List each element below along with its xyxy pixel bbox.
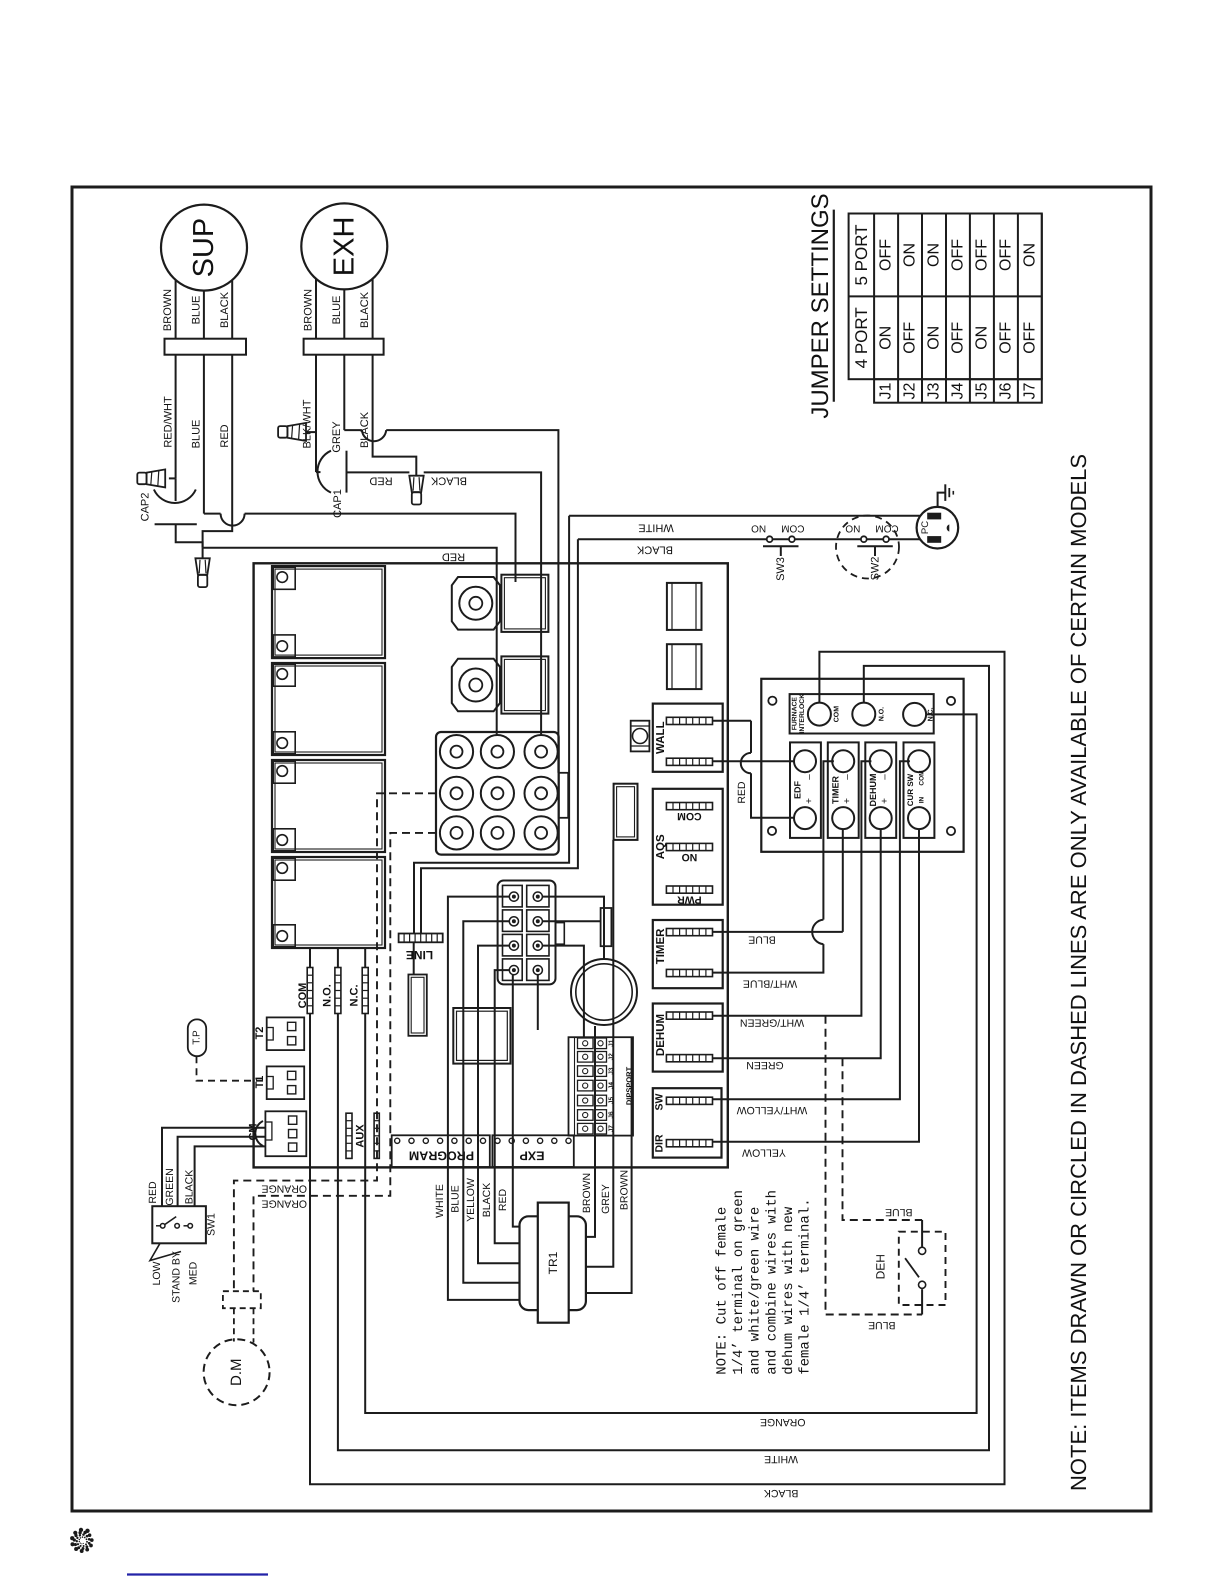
component C1 (vertical) [614, 784, 638, 840]
svg-text:NOTE: ITEMS DRAWN OR CIRCL: NOTE: ITEMS DRAWN OR CIRCLED IN DASHED L… [1066, 454, 1091, 1491]
svg-text:ORANGE: ORANGE [760, 1416, 806, 1428]
svg-text:and white/green wire: and white/green wire [748, 1207, 764, 1375]
terminal block FURNACE INTERLOCK [790, 694, 935, 734]
wire WHITE (line neutral) [414, 516, 920, 934]
connector T1 [254, 1066, 304, 1099]
wire CN1 pin8 [537, 975, 539, 1030]
wire RED (to terminal grid) [203, 548, 497, 736]
jumper settings table [849, 214, 1042, 403]
terminal panel [761, 679, 963, 852]
component R1 (vertical) [408, 975, 426, 1036]
wire BLUE (SUP fan lead) [191, 291, 204, 339]
svg-text:RED: RED [369, 475, 392, 487]
wire BLUE (TIMER+) [713, 829, 843, 945]
ground symbol [938, 484, 954, 507]
wire LINE to fuse [413, 942, 415, 974]
svg-text:N.C.: N.C. [349, 985, 361, 1007]
svg-text:EDF: EDF [793, 780, 803, 799]
svg-text:D.M: D.M [228, 1358, 245, 1386]
svg-text:BLACK: BLACK [184, 1170, 196, 1204]
wire GREEN (CM to SW1) [164, 1137, 265, 1207]
wire WHT/YELLOW (CUR SW COM) [713, 761, 910, 1116]
svg-text:GREY: GREY [331, 421, 343, 453]
svg-text:and combine wires with: and combine wires with [764, 1190, 780, 1375]
header EXP [492, 1135, 573, 1167]
svg-text:BLACK: BLACK [359, 291, 371, 328]
PCB board outline [254, 563, 728, 1167]
svg-text:ON: ON [973, 326, 990, 350]
svg-text:GREY: GREY [600, 1184, 612, 1214]
svg-text:N.O.: N.O. [322, 984, 334, 1007]
wire BLUE (dashed to DEH) [843, 1058, 923, 1246]
svg-text:COM: COM [677, 810, 702, 822]
svg-text:BLUE: BLUE [331, 296, 343, 325]
svg-text:EXH: EXH [328, 217, 360, 277]
component R2 (vertical) [601, 908, 612, 946]
wire RED (TR1) [497, 975, 520, 1227]
svg-text:OFF: OFF [902, 322, 919, 354]
svg-text:NO: NO [751, 523, 766, 534]
svg-text:J4: J4 [950, 382, 967, 399]
svg-text:LINE: LINE [406, 948, 433, 962]
relay footprint RL1 [667, 583, 702, 630]
svg-text:BLACK: BLACK [219, 291, 231, 328]
connector bar EXH [304, 339, 384, 355]
wire ORANGE 2 (dashed, damper) [254, 833, 437, 1291]
terminal block CUR SW [904, 742, 935, 838]
wire GREY (EXH to grid tab) [331, 355, 559, 773]
svg-text:YELLOW: YELLOW [465, 1178, 477, 1222]
svg-text:COM: COM [781, 523, 804, 534]
svg-text:WHT/BLUE: WHT/BLUE [743, 978, 797, 990]
svg-text:CUR SW: CUR SW [906, 773, 915, 806]
svg-text:OFF: OFF [950, 239, 967, 271]
capacitor CAP2 [140, 478, 203, 547]
faston connector F1 [452, 575, 549, 632]
buzzer BZ1 [571, 959, 637, 1025]
svg-text:BLACK: BLACK [764, 1487, 798, 1499]
wire BROWN 2 (TR1) [586, 1037, 632, 1293]
wire CN1 pin7 [542, 946, 584, 1037]
svg-text:J5: J5 [973, 382, 990, 399]
svg-text:J1: J1 [878, 382, 895, 399]
svg-text:–: – [842, 774, 853, 780]
connector WALL [653, 704, 723, 772]
header COM [297, 948, 313, 1014]
wire BLUE (TR1) [450, 921, 520, 1282]
svg-text:WHITE: WHITE [434, 1184, 446, 1218]
wire BLUE (SUP to connector) [191, 355, 516, 582]
relay footprint RL2 [667, 644, 702, 689]
svg-text:RED: RED [497, 1188, 509, 1211]
svg-text:SW1: SW1 [206, 1213, 218, 1236]
svg-text:BLUE: BLUE [450, 1185, 462, 1212]
svg-text:J7: J7 [1021, 382, 1038, 399]
wire BLACK (to terminal grid) [424, 472, 541, 735]
power cord PC [917, 507, 959, 549]
wire WHT/BLUE (TIMER-) [713, 761, 834, 989]
wire BLUE 2 (dashed to DEH) [826, 1016, 923, 1331]
svg-text:PROGRAM: PROGRAM [409, 1149, 474, 1163]
wire RED/WHT (SUP) [163, 355, 176, 479]
svg-text:TIMER: TIMER [831, 776, 841, 804]
mounting pad [631, 721, 650, 752]
svg-text:PWR: PWR [677, 894, 702, 906]
svg-text:NO: NO [682, 851, 698, 863]
svg-text:STAND BY: STAND BY [171, 1251, 183, 1303]
svg-text:RED: RED [219, 424, 231, 447]
connector TIMER [653, 920, 723, 988]
connector AQS [653, 789, 723, 906]
relay K1 [272, 566, 385, 658]
svg-text:SW: SW [654, 1093, 666, 1110]
svg-text:DEHUM: DEHUM [868, 774, 878, 807]
svg-text:BLACK: BLACK [430, 475, 467, 487]
svg-text:–: – [804, 774, 815, 780]
svg-text:OFF: OFF [1021, 322, 1038, 354]
relay K2 [272, 663, 385, 755]
svg-text:RED: RED [147, 1181, 159, 1204]
wire GREEN (DEHUM+) [713, 829, 881, 1071]
svg-text:CAP1: CAP1 [332, 489, 344, 518]
wirenut (motor cap junction) [409, 476, 423, 505]
wire BLUE (EXH fan lead) [331, 289, 344, 338]
connector CM [248, 1111, 307, 1156]
logo (dot spiral) [70, 1528, 93, 1553]
svg-text:J3: J3 [926, 382, 943, 399]
svg-text:BLACK: BLACK [636, 544, 673, 556]
fan motor SUP [161, 205, 247, 291]
svg-text:BLUE: BLUE [868, 1319, 895, 1331]
svg-text:WHT/GREEN: WHT/GREEN [740, 1017, 804, 1029]
svg-text:BROWN: BROWN [162, 289, 174, 331]
LINE header [399, 934, 443, 963]
svg-text:DEHUM: DEHUM [655, 1014, 667, 1056]
jumper block J1-J7 [569, 1037, 634, 1135]
svg-text:dehum wires with new: dehum wires with new [781, 1206, 797, 1375]
connector SW/DIR [653, 1088, 722, 1157]
svg-text:BLUE: BLUE [191, 296, 203, 325]
wire BLACK (TR1) [481, 970, 520, 1243]
svg-text:ON: ON [902, 243, 919, 267]
svg-text:OFF: OFF [950, 322, 967, 354]
terminal block EDF [790, 742, 821, 838]
svg-text:OFF: OFF [997, 322, 1014, 354]
svg-text:+: + [842, 798, 853, 804]
svg-text:TIMER: TIMER [655, 928, 667, 964]
svg-text:NO: NO [845, 523, 860, 534]
header N.C. [349, 948, 369, 1014]
svg-text:IN: IN [919, 796, 926, 803]
transformer TR1 [520, 1203, 586, 1323]
wire BLACK (CM to SW1) [184, 1146, 266, 1206]
svg-text:J6: J6 [997, 382, 1014, 399]
svg-text:EXP: EXP [519, 1149, 544, 1163]
switch SW3 [751, 523, 805, 581]
wire WHT/GREEN (DEHUM-) [713, 761, 872, 1028]
svg-text:BROWN: BROWN [581, 1173, 593, 1213]
svg-text:ORANGE: ORANGE [262, 1198, 308, 1210]
wire BROWN (SUP fan lead) [162, 280, 175, 339]
wire BLACK (EXH fan lead) [359, 279, 372, 339]
wire ORANGE (dashed, damper) [234, 793, 436, 1291]
header PROGRAM [392, 1135, 490, 1167]
svg-text:BLUE: BLUE [885, 1206, 912, 1218]
wire RED (WALL to EDF+) [713, 721, 794, 818]
svg-text:1/4’ terminal on green: 1/4’ terminal on green [731, 1190, 747, 1375]
svg-text:WHITE: WHITE [764, 1453, 798, 1465]
connector bar SUP [165, 339, 247, 355]
svg-text:WHITE: WHITE [638, 522, 673, 534]
svg-text:RED/WHT: RED/WHT [163, 396, 175, 448]
jumper settings title [807, 193, 834, 418]
connector CN1 (2x4) [498, 881, 565, 985]
header N.O. [322, 948, 341, 1014]
switch DEH (dehumidistat, optional) [874, 1232, 946, 1305]
svg-text:PC: PC [920, 521, 931, 534]
svg-text:RED: RED [442, 551, 465, 563]
wire WHITE (TR1) [434, 897, 520, 1300]
svg-text:JUMPER SETTINGS: JUMPER SETTINGS [807, 193, 834, 418]
footer line [127, 1573, 268, 1575]
note text (terminal splice) [715, 1190, 814, 1375]
terminal block TIMER [828, 742, 859, 838]
svg-text:OFF: OFF [997, 239, 1014, 271]
svg-text:–: – [880, 774, 891, 780]
svg-text:ON: ON [878, 326, 895, 350]
svg-text:CM: CM [248, 1123, 260, 1140]
svg-text:female 1/4’ terminal.: female 1/4’ terminal. [798, 1198, 814, 1374]
svg-text:WALL: WALL [655, 721, 667, 754]
svg-text:NOTE: Cut off female: NOTE: Cut off female [715, 1207, 731, 1375]
svg-text:RED: RED [736, 781, 748, 804]
svg-text:OFF: OFF [878, 239, 895, 271]
svg-text:OFF: OFF [973, 239, 990, 271]
wire BLK/WHT (EXH) [302, 355, 321, 472]
svg-text:BROWN: BROWN [619, 1170, 631, 1210]
wire RED (SUP to junction) [203, 355, 233, 548]
svg-text:N.O.: N.O. [878, 707, 885, 721]
svg-text:LOW: LOW [151, 1261, 163, 1285]
temperature probe T.P [188, 1019, 267, 1080]
capacitor CAP1 [317, 451, 346, 518]
svg-text:T1: T1 [254, 1076, 266, 1089]
relay K4 [272, 857, 385, 948]
svg-text:MED: MED [188, 1261, 200, 1285]
svg-text:CAP2: CAP2 [140, 493, 152, 522]
svg-text:+: + [880, 798, 891, 804]
svg-text:YELLOW: YELLOW [742, 1147, 786, 1159]
wire CN1 pin6 [542, 920, 600, 922]
dashed connector (damper) [223, 1291, 261, 1342]
wire BLACK (relay COM to furnace interlock) [310, 652, 1005, 1499]
connector DEHUM [653, 1004, 723, 1072]
svg-text:GREEN: GREEN [164, 1168, 176, 1205]
wire BROWN (TR1) [581, 1026, 595, 1237]
svg-text:GREEN: GREEN [746, 1059, 783, 1071]
svg-text:INTERLOCK: INTERLOCK [799, 694, 806, 734]
wire YELLOW (CUR SW IN) [713, 829, 920, 1158]
svg-text:COM: COM [919, 770, 926, 785]
wire WHITE (relay N.O. to furnace interlock) [338, 666, 989, 1465]
component T2 pad (square) [453, 1008, 510, 1064]
svg-text:J2: J2 [902, 382, 919, 399]
wire (WALL to EDF-) [713, 760, 794, 762]
header AUX [346, 1113, 379, 1158]
svg-text:COM: COM [833, 706, 840, 723]
svg-text:BROWN: BROWN [303, 289, 315, 331]
fan motor EXH [301, 203, 387, 289]
wire GREY (TR1) [586, 840, 613, 1267]
svg-text:ORANGE: ORANGE [262, 1182, 308, 1194]
svg-text:+: + [804, 798, 815, 804]
svg-text:BLACK: BLACK [481, 1183, 493, 1217]
damper motor D.M (optional) [204, 1339, 270, 1405]
svg-text:ON: ON [926, 243, 943, 267]
connector T2 [254, 1017, 304, 1050]
wire BLACK (EXH via wirenut) [359, 355, 416, 476]
svg-text:FURNACE: FURNACE [792, 697, 799, 731]
switch SW2 (door, optional) [836, 516, 899, 581]
terminal grid TB1 (3x3) [436, 732, 568, 855]
wire RED (CM to SW1) [147, 1128, 265, 1207]
svg-text:T2: T2 [254, 1027, 266, 1040]
wire ORANGE (relay N.C. to furnace interlock) [365, 714, 976, 1427]
terminal block DEHUM [865, 742, 896, 838]
svg-text:4 PORT: 4 PORT [852, 307, 871, 368]
svg-text:5 PORT: 5 PORT [852, 224, 871, 285]
wirenut (BLK/WHT pigtail) [278, 423, 306, 441]
svg-text:T.P: T.P [192, 1030, 203, 1045]
wire RED (CAP1 to wirenut) [347, 472, 410, 486]
svg-text:SW3: SW3 [775, 557, 787, 581]
switch SW1 (fan speed) [150, 1206, 218, 1260]
relay K3 [272, 760, 385, 852]
svg-text:AQS: AQS [655, 834, 667, 859]
wire BLACK (SUP fan lead) [219, 280, 232, 339]
note: dashed items availability [1066, 454, 1091, 1491]
svg-text:DIR: DIR [654, 1134, 666, 1153]
faston connector F2 [452, 656, 549, 713]
svg-text:BLUE: BLUE [191, 420, 203, 449]
svg-text:TR1: TR1 [546, 1251, 560, 1274]
svg-text:SUP: SUP [188, 218, 220, 278]
wire BROWN (EXH fan lead) [303, 279, 316, 339]
svg-text:ON: ON [926, 326, 943, 350]
svg-text:WHT/YELLOW: WHT/YELLOW [737, 1104, 808, 1116]
svg-text:COM: COM [297, 983, 309, 1009]
svg-text:DEH: DEH [874, 1254, 888, 1279]
svg-text:ON: ON [1021, 243, 1038, 267]
wire CN1 pin5 [542, 897, 604, 959]
svg-text:BLUE: BLUE [748, 934, 775, 946]
wirenut (RED junction) [195, 548, 209, 587]
wirenut (RED/WHT pigtail) [137, 469, 165, 487]
wire BLACK (line hot) [421, 539, 920, 933]
wire YELLOW (TR1) [465, 946, 520, 1264]
